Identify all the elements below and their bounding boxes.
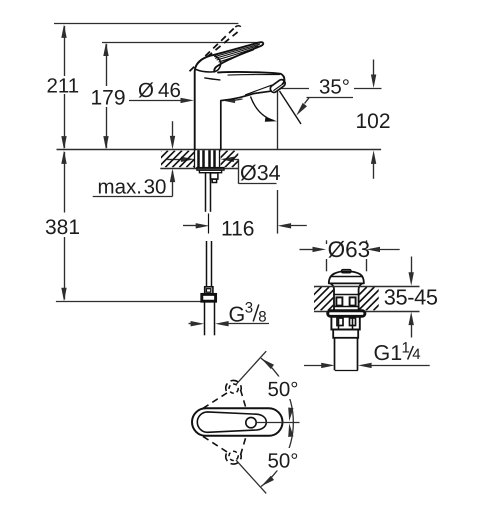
svg-text:G: G bbox=[229, 303, 246, 327]
svg-text:102: 102 bbox=[356, 110, 391, 133]
svg-text:1: 1 bbox=[402, 340, 410, 357]
svg-text:3: 3 bbox=[245, 300, 253, 317]
svg-text:Ø34: Ø34 bbox=[240, 161, 281, 185]
svg-text:116: 116 bbox=[221, 218, 254, 241]
svg-text:50°: 50° bbox=[268, 378, 299, 401]
svg-text:4: 4 bbox=[412, 346, 420, 363]
svg-text:211: 211 bbox=[47, 75, 80, 98]
svg-text:Ø 46: Ø 46 bbox=[138, 79, 181, 102]
svg-text:G1: G1 bbox=[374, 341, 403, 365]
svg-text:max. 30: max. 30 bbox=[98, 176, 167, 199]
svg-text:Ø63: Ø63 bbox=[328, 237, 371, 262]
svg-text:381: 381 bbox=[45, 216, 80, 239]
svg-text:179: 179 bbox=[91, 87, 126, 110]
svg-text:35-45: 35-45 bbox=[384, 285, 438, 310]
svg-text:8: 8 bbox=[258, 309, 266, 326]
svg-text:35°: 35° bbox=[319, 76, 350, 99]
svg-text:50°: 50° bbox=[268, 450, 299, 473]
